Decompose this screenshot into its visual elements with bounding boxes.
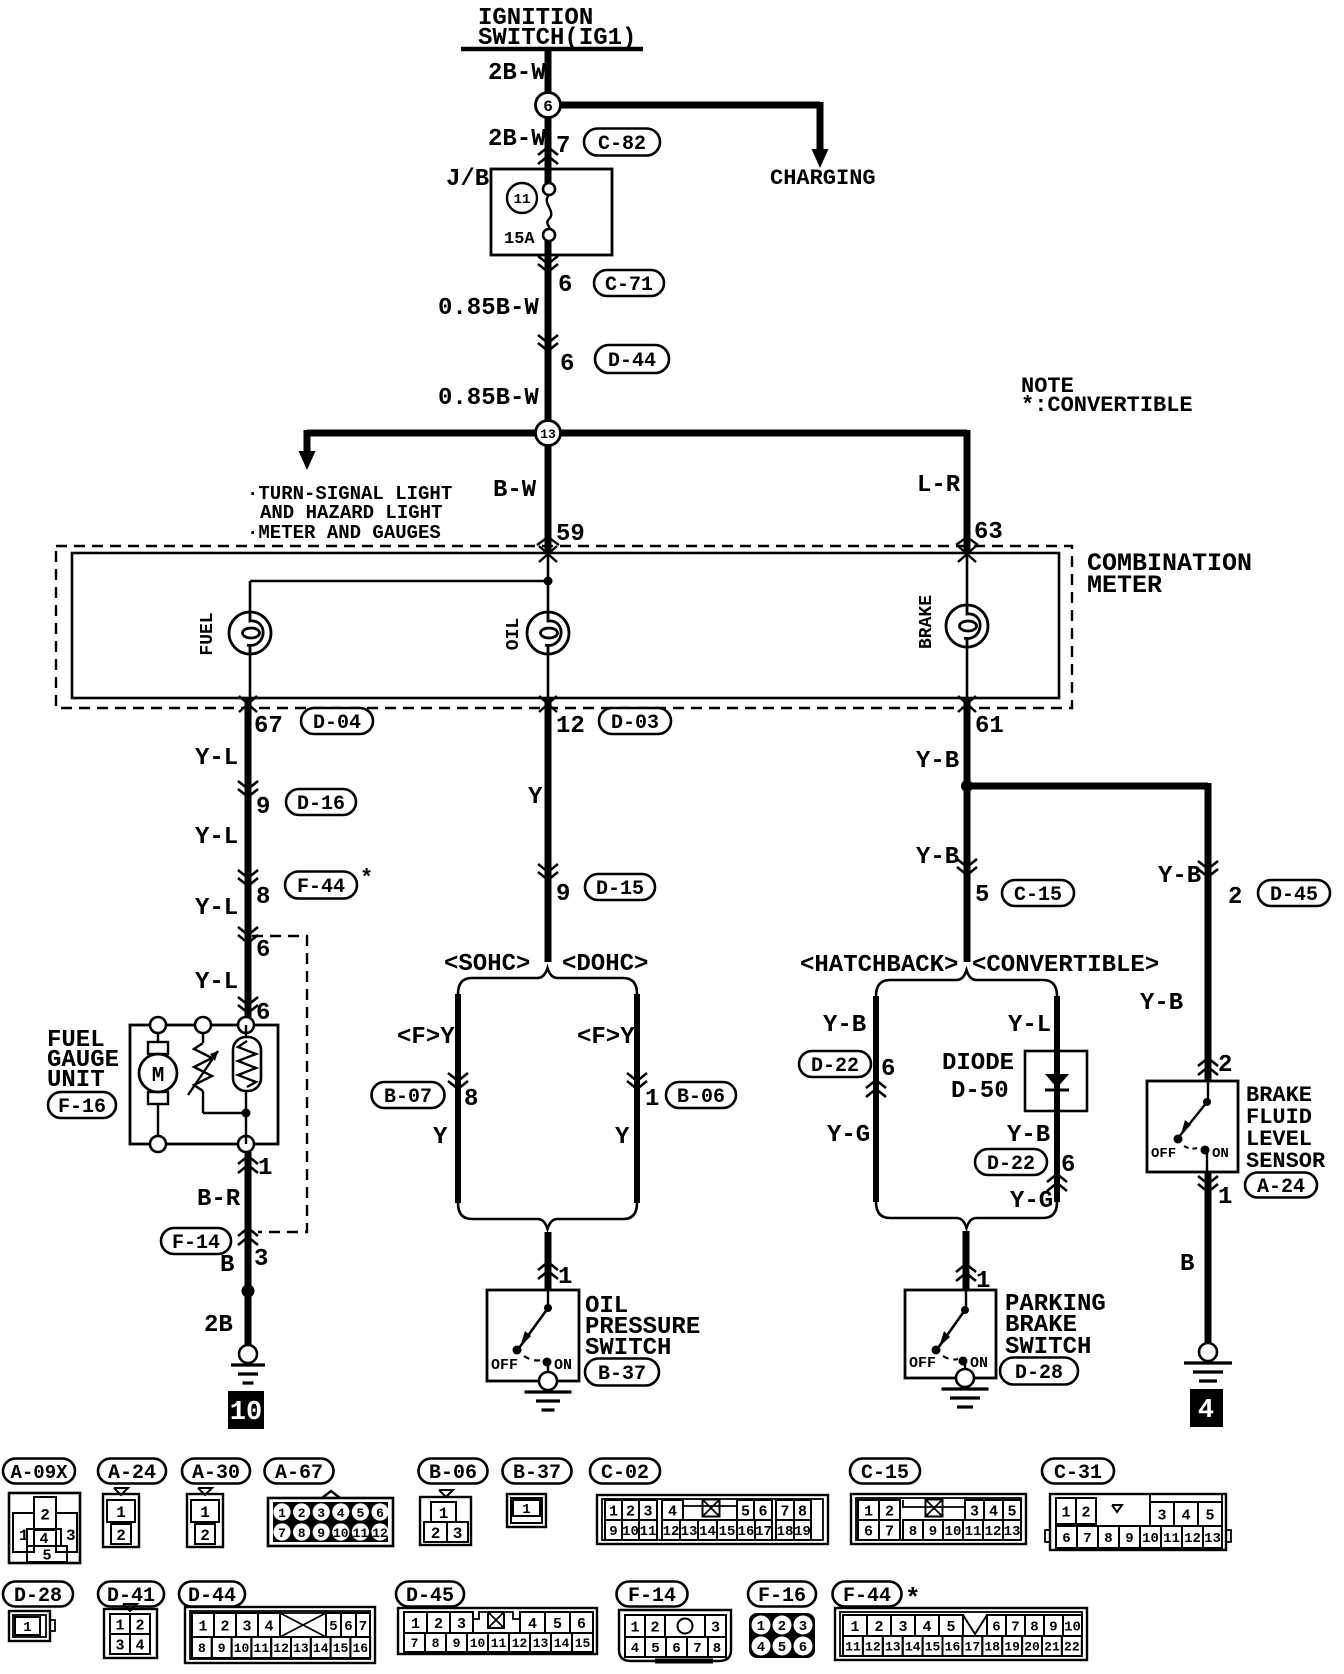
pin 1 B-06 [645,1086,659,1113]
label CONVERTIBLE [972,952,1159,979]
svg-text:7: 7 [1083,1531,1091,1547]
parking brake switch contacts [932,1290,970,1370]
connector D-41 pinout [104,1604,157,1658]
pin 1 oil switch [558,1264,572,1291]
svg-text:12: 12 [1184,1531,1201,1547]
svg-text:61: 61 [975,713,1004,740]
meter wire below fuel lamp [249,654,252,698]
chevrons sensor exit 1 [1198,1176,1218,1192]
chevrons F-14 [238,1228,258,1245]
svg-text:3: 3 [66,1527,76,1545]
connector A-24 inline [1245,1173,1317,1200]
pin 6 upper [256,937,270,964]
pin 8 B-07 [464,1086,478,1113]
wire Y-B brake chain [964,698,971,962]
svg-text:1: 1 [116,1504,126,1522]
svg-text:OIL: OIL [504,618,524,650]
svg-text:<HATCHBACK>: <HATCHBACK> [800,952,958,979]
connector F-44 pinout [835,1608,1087,1660]
connector label D-45 [396,1582,464,1609]
svg-text:1: 1 [522,1502,530,1518]
svg-text:2: 2 [626,1503,635,1520]
svg-text:B-37: B-37 [513,1462,561,1485]
svg-text:5: 5 [1007,1503,1016,1520]
svg-text:4: 4 [264,1618,273,1635]
svg-text:67: 67 [254,713,283,740]
svg-text:3: 3 [317,1506,325,1521]
wire label B-W [493,477,537,504]
svg-text:D-45: D-45 [1270,884,1318,907]
oil warning lamp [527,612,569,654]
svg-text:12: 12 [512,1636,528,1651]
svg-text:6: 6 [864,1523,873,1540]
svg-text:15A: 15A [504,230,535,249]
svg-text:D-15: D-15 [596,878,644,901]
svg-text:4: 4 [528,1616,537,1633]
svg-text:1: 1 [757,1619,765,1635]
svg-text:C-15: C-15 [1014,884,1062,907]
connector B-37 pinout [507,1494,546,1527]
svg-text:15: 15 [925,1640,941,1655]
svg-text:6: 6 [992,1620,1000,1636]
wire label Y-B right [1158,863,1201,890]
svg-text:4: 4 [631,1641,639,1657]
connector A-24 pinout [103,1488,139,1547]
svg-text:2: 2 [1228,884,1242,911]
svg-text:1: 1 [439,1505,449,1523]
svg-text:15: 15 [575,1636,591,1651]
wire label Y-L convertible [1008,1012,1051,1039]
svg-text:D-50: D-50 [951,1078,1009,1105]
meter wire to oil lamp [547,553,550,612]
svg-text:5: 5 [651,1641,659,1657]
svg-text:9: 9 [256,794,270,821]
svg-text:15: 15 [333,1641,349,1656]
svg-text:12: 12 [372,1526,388,1541]
wire branch left from node 13 [307,430,548,452]
fuel gauge terminal 6 [238,1017,254,1033]
svg-text:13: 13 [885,1640,901,1655]
pin 6 D-44 [560,351,574,378]
svg-text:14: 14 [905,1640,921,1655]
svg-text:6: 6 [256,1000,270,1027]
svg-text:UNIT: UNIT [47,1067,105,1094]
svg-text:11: 11 [491,1636,507,1651]
svg-text:<CONVERTIBLE>: <CONVERTIBLE> [972,952,1159,979]
svg-text:8: 8 [198,1641,206,1656]
connector D-45 inline [1258,880,1330,907]
svg-text:13: 13 [293,1641,309,1656]
svg-text:A-30: A-30 [192,1462,240,1485]
svg-text:5: 5 [778,1640,786,1656]
connector D-16 [286,789,356,816]
svg-text:6: 6 [256,937,270,964]
svg-text:Y-L: Y-L [195,969,238,996]
wire label L-R [917,472,961,499]
connector D-22 hatchback [799,1051,871,1078]
connector label B-06 [419,1459,488,1486]
svg-text:2: 2 [434,1616,443,1633]
svg-text:A-24: A-24 [1257,1176,1305,1199]
svg-text:6: 6 [881,1056,895,1083]
svg-text:21: 21 [1044,1640,1060,1655]
svg-text:Y-B: Y-B [823,1012,866,1039]
svg-text:D-16: D-16 [297,793,345,816]
fuel pump motor M [139,1033,177,1136]
svg-text:F-14: F-14 [172,1232,220,1255]
svg-text:17: 17 [755,1524,772,1540]
svg-text:2: 2 [1218,1052,1232,1079]
svg-text:2B-W: 2B-W [488,60,546,87]
wire label Y-L 2 [195,824,238,851]
junction block J/B box [491,169,612,255]
svg-text:2: 2 [650,1619,659,1636]
svg-text:4: 4 [337,1506,345,1521]
connector chevrons D-16 [238,781,258,797]
svg-text:13: 13 [540,427,556,442]
fuse number 11 circle [507,183,537,213]
connector label D-44 [179,1582,245,1609]
svg-text:9: 9 [453,1636,461,1651]
svg-text:7: 7 [411,1636,419,1651]
connector label A-30 [182,1459,250,1486]
pin 1 sensor exit [1218,1184,1232,1211]
svg-text:BRAKE: BRAKE [917,595,937,649]
fuel gauge coil resistor [233,1025,261,1144]
wire label Y-B hatchback [823,1012,866,1039]
svg-text:11: 11 [965,1524,982,1540]
svg-text:11: 11 [514,192,531,208]
connector D-04 [301,708,373,735]
svg-text:F-14: F-14 [628,1585,676,1608]
svg-text:7: 7 [1011,1620,1019,1636]
label FUEL GAUGE UNIT [47,1027,119,1094]
svg-text:0.85B-W: 0.85B-W [438,295,539,322]
chevrons D-22 hatchback [866,1080,886,1097]
svg-text:19: 19 [1004,1640,1020,1655]
wire label 2B-W below node [488,126,546,153]
svg-text:8: 8 [1030,1620,1038,1636]
connector chevrons D-44 [538,335,558,351]
combination meter inner box [72,553,1059,698]
connector D-45 pinout [398,1608,597,1654]
svg-text:D-28: D-28 [1015,1362,1063,1385]
svg-text:3: 3 [970,1503,979,1520]
svg-text:12: 12 [663,1524,680,1540]
node 13 splice [536,421,561,446]
svg-text:5: 5 [975,882,989,909]
ground fuel [231,1345,265,1383]
svg-text:1: 1 [1218,1184,1232,1211]
chevrons B-06 [627,1073,647,1089]
svg-text:2B: 2B [204,1312,233,1339]
pin 8 F-44 [256,884,270,911]
label ON sensor [1212,1146,1229,1162]
svg-text:Y: Y [528,784,543,811]
svg-text:·METER AND GAUGES: ·METER AND GAUGES [247,522,441,544]
svg-text:59: 59 [556,521,585,548]
svg-text:7: 7 [278,1526,286,1541]
svg-text:13: 13 [681,1524,698,1540]
svg-text:10: 10 [622,1524,639,1540]
wire 2B-W from ignition switch [545,49,552,183]
svg-text:D-44: D-44 [608,350,656,373]
arrow to CHARGING [812,149,829,168]
combination meter dashed outline [56,546,1072,708]
wire label Y-B 2 [916,844,959,871]
svg-text:2: 2 [116,1527,126,1545]
svg-text:5: 5 [42,1547,51,1564]
parking brake switch box [905,1290,996,1378]
svg-text:D-04: D-04 [313,712,361,735]
svg-text:F-44: F-44 [297,876,345,899]
svg-text:M: M [152,1065,165,1088]
wire label 2B-W [488,60,546,87]
node 6 splice [536,93,561,118]
junction dot fuel gauge [242,1109,251,1118]
svg-text:1: 1 [630,1619,639,1636]
label 15A [504,230,535,249]
exit mark 12 [539,696,557,712]
svg-text:3: 3 [1157,1507,1166,1524]
svg-text:Y-G: Y-G [1010,1188,1053,1215]
svg-text:10: 10 [945,1524,962,1540]
pin 67 [254,713,283,740]
wire label B sensor [1180,1251,1194,1278]
svg-text:13: 13 [533,1636,549,1651]
svg-text:D-22: D-22 [987,1153,1035,1176]
svg-text:3: 3 [254,1246,268,1273]
svg-text:2B-W: 2B-W [488,126,546,153]
wire label 0.85B-W [438,295,539,322]
connector label A-67 [265,1459,334,1486]
connector F-14 inline [161,1228,231,1255]
chevrons D-45 [1198,861,1218,877]
svg-text:10: 10 [470,1636,486,1651]
svg-text:2: 2 [431,1525,441,1543]
fuse 11 15A [543,183,555,241]
svg-text:4: 4 [1198,1396,1214,1426]
svg-text:C-15: C-15 [861,1462,909,1485]
svg-text:B-07: B-07 [384,1086,432,1109]
connector F-16 [48,1092,116,1119]
pin 6 D-22 convertible [1061,1152,1075,1179]
label F Y dohc [577,1024,635,1051]
svg-text:4: 4 [922,1619,931,1636]
svg-text:19: 19 [794,1524,811,1540]
svg-text:7: 7 [556,133,570,160]
svg-text:0.85B-W: 0.85B-W [438,385,539,412]
svg-text:11: 11 [1163,1531,1180,1547]
svg-text:FUEL: FUEL [198,612,218,655]
svg-text:12: 12 [556,713,585,740]
junction dot in meter [544,577,553,586]
svg-text:Y-L: Y-L [195,824,238,851]
chevrons oil switch 1 [538,1262,558,1279]
svg-text:1: 1 [864,1503,873,1520]
svg-text:1: 1 [558,1264,572,1291]
connector label F-44 [833,1582,921,1615]
svg-text:Y-L: Y-L [195,745,238,772]
pin 12 [556,713,585,740]
svg-text:3: 3 [115,1637,124,1654]
ignition switch (IG1) source [461,5,643,52]
pin 7 [556,133,570,160]
svg-text:Y-B: Y-B [1140,990,1183,1017]
svg-text:Y-B: Y-B [916,748,959,775]
svg-text:1: 1 [23,1620,31,1636]
pin 6 C-71 [558,272,572,299]
connector C-15 inline [1002,880,1074,907]
connector label D-41 [98,1582,164,1609]
connector F-44 inline [285,866,373,899]
fuel gauge terminal 1 [238,1136,254,1152]
convertible branch bar [1054,996,1060,1202]
brake fluid level sensor box [1147,1081,1238,1172]
svg-text:CHARGING: CHARGING [770,166,876,191]
svg-text:2: 2 [885,1503,894,1520]
exit mark 61 [958,696,976,712]
svg-text:B-R: B-R [197,1186,241,1213]
svg-text:OFF: OFF [909,1355,936,1372]
svg-text:9: 9 [929,1524,937,1540]
arrow to turn-signal circuits [299,451,316,470]
svg-text:7: 7 [693,1641,701,1657]
svg-text:16: 16 [352,1641,368,1656]
svg-text:10: 10 [230,1398,262,1428]
svg-text:1: 1 [258,1155,272,1182]
label FUEL [198,612,218,655]
svg-text:6: 6 [1062,1531,1070,1547]
label ON parking [970,1355,988,1372]
fuel gauge terminal top mid [195,1017,211,1033]
svg-text:5: 5 [741,1503,750,1520]
svg-text:1: 1 [1061,1504,1070,1521]
hatchback convertible bottom brace [876,1202,1057,1228]
wire label Y-G convertible [1010,1188,1053,1215]
svg-text:8: 8 [298,1526,306,1541]
ground ref 10 [228,1391,264,1429]
chevrons C-15 [957,859,977,875]
svg-text:5: 5 [329,1619,337,1635]
svg-text:14: 14 [313,1641,329,1656]
svg-text:Y-B: Y-B [916,844,959,871]
svg-text:Y: Y [433,1124,448,1151]
svg-text:6: 6 [558,272,572,299]
junction dot ground wire [242,1285,255,1298]
fuel sender variable resistor [188,1033,246,1113]
label turn-signal light and hazard light meter and gauges [247,483,452,544]
svg-text:3: 3 [242,1618,251,1635]
wire Y oil chain [545,698,552,962]
svg-text:Y-L: Y-L [195,895,238,922]
connector B-06 [666,1082,736,1109]
connector D-28 inline [1000,1358,1078,1386]
pin 3 F-14 [254,1246,268,1273]
ground brake [1184,1343,1232,1381]
connector B-07 [372,1082,445,1109]
brake warning lamp [946,605,988,647]
entry mark 63 [956,537,978,562]
connector chevrons D-15 [538,864,558,880]
svg-text:3: 3 [799,1619,807,1635]
connector B-37 [585,1359,659,1387]
svg-text:14: 14 [554,1636,570,1651]
label OFF sensor [1151,1146,1176,1162]
fuel gauge terminal top left [150,1017,166,1033]
svg-text:1: 1 [115,1617,124,1634]
svg-text:6: 6 [560,351,574,378]
svg-text:D-45: D-45 [406,1585,454,1608]
svg-text:*: * [360,866,373,891]
svg-text:*: * [905,1584,921,1614]
connector label D-28 [3,1582,73,1609]
chevrons exit 1 [238,1156,258,1173]
svg-text:DIODE: DIODE [942,1050,1014,1077]
connector D-22 convertible [975,1149,1047,1176]
svg-text:63: 63 [974,519,1003,546]
svg-text:D-03: D-03 [611,712,659,735]
wire B-R below fuel gauge [245,1152,252,1350]
svg-text:<DOHC>: <DOHC> [562,951,648,978]
wire label Y-G hatchback [827,1122,870,1149]
connector label C-15 [850,1459,920,1486]
hatchback convertible top brace [876,970,1057,996]
wire label Y dohc [615,1124,630,1151]
svg-text:1: 1 [609,1503,618,1520]
svg-text:B: B [1180,1251,1194,1278]
connector label B-37 [503,1459,572,1486]
pin 63 [974,519,1003,546]
label OFF parking [909,1355,936,1372]
connector A-67 pinout [268,1491,393,1546]
fuel warning lamp [229,612,271,654]
wire label B [220,1252,234,1279]
svg-text:9: 9 [556,881,570,908]
label OFF oil [491,1357,518,1374]
label DIODE D-50 [942,1050,1014,1105]
label ON oil [554,1357,572,1374]
connector D-44 pinout [185,1607,375,1663]
label J/B [446,166,489,193]
svg-text:SENSOR: SENSOR [1246,1149,1326,1174]
connector label A-09X [3,1459,75,1484]
svg-text:8: 8 [909,1524,917,1540]
entry mark 59 [537,537,559,562]
svg-text:3: 3 [898,1619,907,1636]
svg-text:Y-B: Y-B [1158,863,1201,890]
svg-text:Y-G: Y-G [827,1122,870,1149]
wire label B-R [197,1186,241,1213]
connector D-44 inline [595,345,669,373]
svg-text:1: 1 [411,1616,420,1633]
connector C-31 pinout [1045,1494,1231,1550]
wire label Y-B convertible [1007,1122,1050,1149]
wire label Y-B 1 [916,748,959,775]
connector B-06 pinout [420,1490,471,1545]
label BRAKE [917,595,937,649]
svg-text:11: 11 [640,1524,657,1540]
chevrons at fuel gauge 6 [238,997,258,1013]
wire label Y-B sensor [1140,990,1183,1017]
meter wire from 63 to brake lamp [966,553,969,605]
svg-text:5: 5 [356,1506,364,1521]
oil pressure switch contacts [513,1290,553,1372]
svg-text:7: 7 [780,1503,789,1520]
wire branch to D-45 [967,783,1208,1081]
label DOHC [562,951,648,978]
svg-text:Y-B: Y-B [1007,1122,1050,1149]
